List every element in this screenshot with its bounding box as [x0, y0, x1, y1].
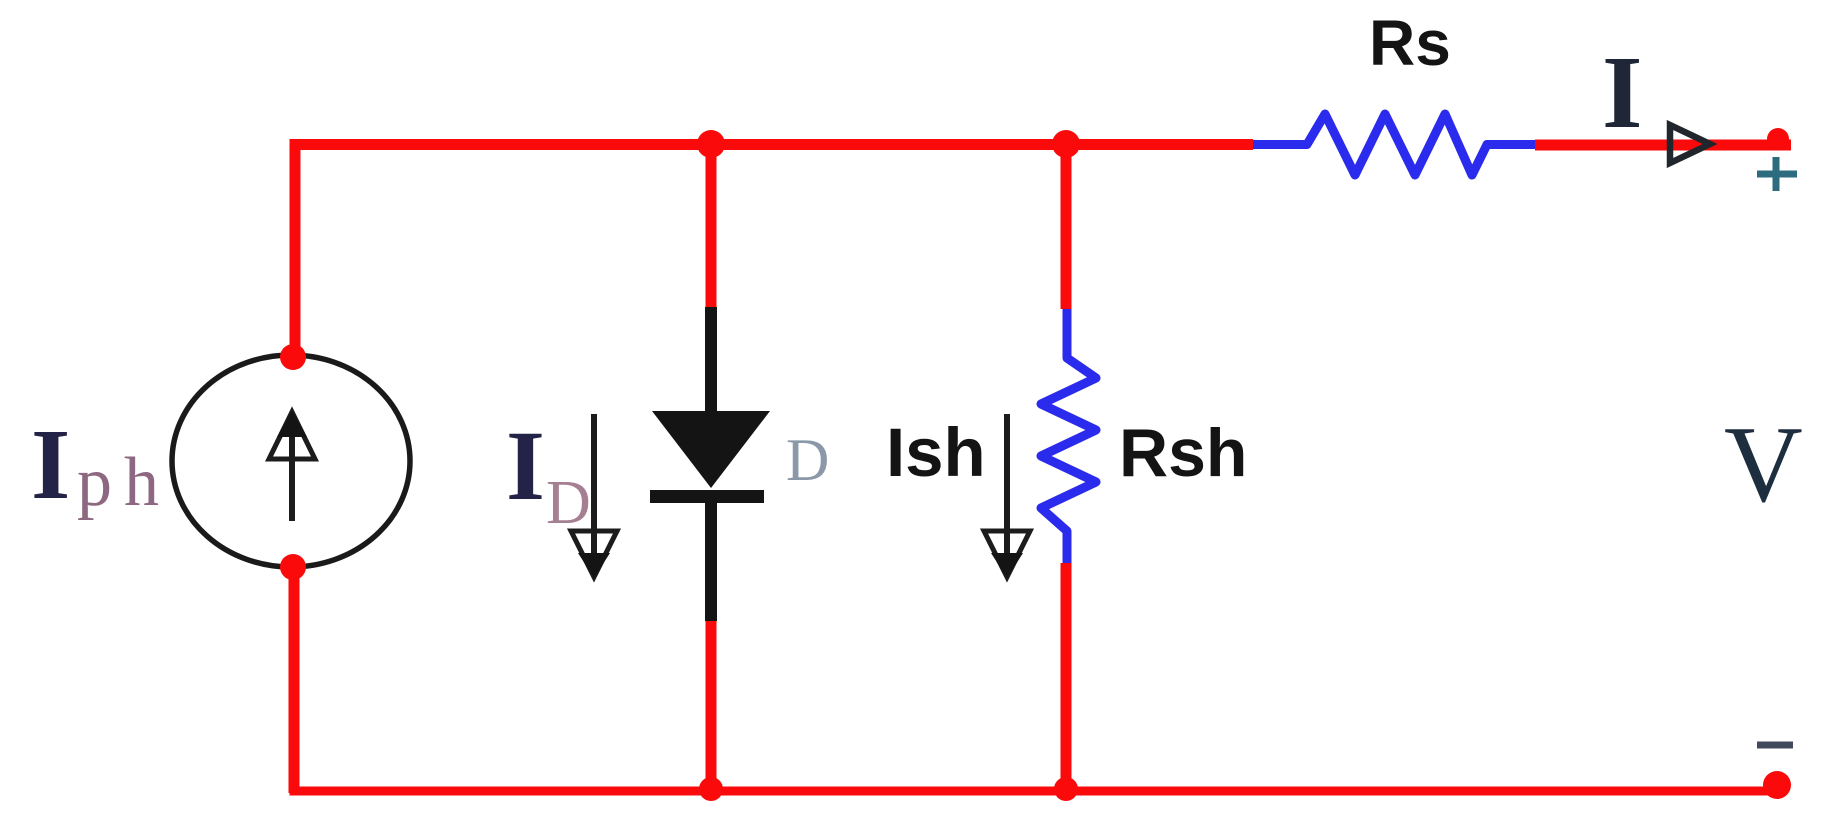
svg-text:I: I	[506, 410, 545, 521]
svg-text:Ish: Ish	[886, 414, 986, 491]
svg-text:p: p	[77, 444, 112, 521]
svg-text:D: D	[546, 469, 591, 537]
svg-text:D: D	[786, 427, 829, 493]
svg-text:Rsh: Rsh	[1119, 415, 1247, 491]
svg-text:I: I	[1602, 35, 1642, 150]
svg-text:h: h	[124, 444, 159, 521]
svg-text:Rs: Rs	[1369, 7, 1451, 79]
svg-text:I: I	[31, 408, 70, 520]
svg-text:V: V	[1724, 404, 1803, 525]
